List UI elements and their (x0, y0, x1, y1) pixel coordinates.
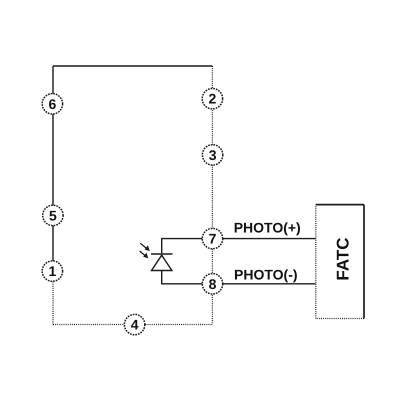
svg-text:FATC: FATC (334, 237, 353, 280)
pin 5 (43, 205, 63, 225)
svg-text:1: 1 (49, 263, 57, 279)
svg-text:3: 3 (209, 147, 217, 163)
wire: left vertical solid segment (pin 6 to pin 1) (52, 66, 54, 271)
wire: PHOTO(+) from pin 7 to FATC (222, 238, 316, 240)
wire: photodiode anode to pin 8 (162, 271, 203, 284)
wire: bottom horizontal dotted (through pin 4) (53, 324, 212, 326)
FATC box top edge (solid) (316, 204, 364, 206)
FATC box left edge (dotted) (315, 205, 317, 319)
svg-text:6: 6 (49, 96, 57, 112)
photodiode cathode bar (151, 253, 173, 255)
FATC box (316, 205, 364, 319)
wire: PHOTO(-) from pin 8 to FATC (222, 283, 316, 285)
pin 1 (42, 261, 62, 281)
photodiode D1 (140, 243, 173, 270)
wire: right vertical dotted (pins 2,3,7,8) (211, 66, 213, 325)
svg-text:PHOTO(+): PHOTO(+) (234, 220, 301, 236)
photodiode light arrow 1 (140, 243, 150, 251)
wire: pin 7 to photodiode cathode (162, 239, 203, 254)
svg-text:4: 4 (131, 317, 139, 333)
wire: top horizontal (solid) (53, 65, 212, 67)
wire: left vertical dotted segment (below pin 1) (52, 271, 54, 325)
FATC box bottom edge (dotted) (316, 318, 364, 320)
photodiode light arrow 2 (140, 251, 149, 258)
svg-text:7: 7 (209, 231, 217, 247)
pin 3 (202, 145, 222, 165)
svg-text:8: 8 (209, 276, 217, 292)
pin 6 (42, 94, 62, 114)
pin 4 (124, 314, 144, 334)
FATC box right edge (solid) (363, 205, 365, 319)
svg-text:PHOTO(-): PHOTO(-) (234, 267, 298, 283)
pin 7 (202, 228, 222, 248)
svg-text:5: 5 (49, 207, 57, 223)
pin 2 (202, 89, 222, 109)
pin 8 (202, 274, 222, 294)
svg-text:2: 2 (209, 91, 217, 107)
photodiode triangle (152, 255, 172, 270)
